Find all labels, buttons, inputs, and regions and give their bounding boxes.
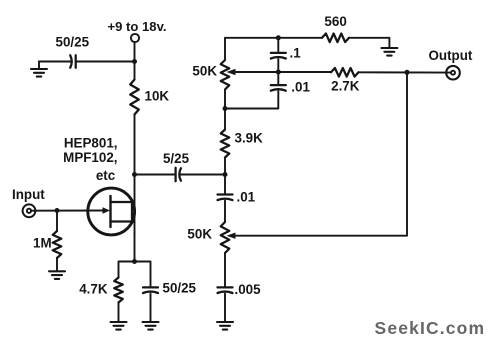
wire 1M top — [56, 211, 58, 232]
capacitor .1 — [271, 52, 286, 54]
node wiper junction — [276, 70, 281, 75]
svg-text:.005: .005 — [235, 282, 262, 297]
node source junction — [132, 259, 137, 264]
capacitor .01 mid — [218, 193, 233, 195]
resistor 560 — [322, 34, 349, 43]
wire 2.7K to output — [359, 71, 452, 73]
svg-text:MPF102,: MPF102, — [63, 150, 117, 165]
capacitor .005 — [218, 286, 233, 288]
wire cap01 to pot2 — [224, 201, 226, 222]
svg-text:1M: 1M — [33, 235, 52, 250]
resistor 3.9K — [221, 130, 230, 158]
potentiometer 50K lower — [221, 222, 230, 253]
capacitor 50/25 source bypass — [143, 286, 158, 288]
svg-text:4.7K: 4.7K — [79, 282, 108, 297]
wire drain vertical — [134, 115, 136, 235]
wire bypass right segment — [76, 61, 135, 63]
svg-text:.1: .1 — [290, 46, 302, 61]
svg-text:+9 to 18v.: +9 to 18v. — [107, 19, 166, 34]
wire input to gate — [31, 210, 104, 212]
ground G2 — [49, 270, 65, 272]
ground G3 — [111, 321, 127, 323]
wire bypass left segment — [39, 61, 71, 63]
wire source vertical — [134, 233, 136, 262]
wire cap column upper — [277, 38, 279, 52]
node top cap junction — [276, 35, 281, 40]
power terminal +9 to 18v — [131, 34, 139, 42]
wire pot2 bottom — [224, 253, 226, 286]
capacitor 5/25 coupling — [174, 168, 176, 182]
capacitor 50/25 input-supply — [70, 55, 72, 67]
wire 3.9K bottom — [224, 158, 226, 194]
svg-text:50/25: 50/25 — [163, 281, 197, 296]
node input-1M junction — [55, 208, 60, 213]
svg-text:3.9K: 3.9K — [235, 131, 264, 146]
wire cap .1 to wiper node — [277, 59, 279, 84]
wire cap005 bottom — [224, 294, 226, 323]
transistor Q1 HEP801/MPF102 JFET — [88, 188, 135, 235]
svg-text:.01: .01 — [291, 79, 310, 94]
node pot1 bottom junction — [223, 106, 228, 111]
resistor 1M — [53, 231, 62, 258]
wire bypass cap bottom — [150, 294, 152, 323]
wire top feedback row — [225, 37, 322, 39]
resistor 10K — [130, 80, 139, 115]
node coupling junction — [223, 172, 228, 177]
svg-text:5/25: 5/25 — [163, 151, 190, 166]
svg-text:SeekIC.com: SeekIC.com — [375, 318, 486, 338]
svg-text:2.7K: 2.7K — [331, 79, 360, 94]
wire feedback vertical right — [236, 72, 407, 235]
wire 1M bottom — [56, 258, 58, 271]
wire pot1 bottom — [224, 90, 226, 130]
input jack — [23, 204, 36, 217]
wire wiper row — [235, 71, 332, 73]
wire 5/25 right — [180, 174, 225, 176]
svg-text:50/25: 50/25 — [56, 35, 90, 50]
wire 5/25 left — [135, 174, 176, 176]
node supply-bypass junction — [132, 59, 137, 64]
ground G4 — [143, 321, 159, 323]
resistor 4.7K — [114, 278, 123, 303]
svg-text:560: 560 — [324, 14, 346, 29]
svg-text:Input: Input — [12, 187, 45, 202]
svg-text:Output: Output — [429, 48, 473, 63]
wire 560 right — [349, 38, 389, 48]
resistor 2.7K — [331, 68, 359, 77]
ground G1 — [38, 62, 40, 70]
potentiometer 50K upper — [221, 60, 230, 90]
capacitor .01 top — [271, 84, 286, 86]
node output junction — [405, 70, 410, 75]
node drain tap junction — [132, 172, 137, 177]
wire cap .01 bottom corner — [225, 91, 278, 108]
svg-text:50K: 50K — [187, 227, 212, 242]
ground G5 — [217, 321, 233, 323]
wire source horizontal — [119, 262, 151, 287]
wire supply vertical upper — [134, 42, 136, 80]
ground G6 — [381, 47, 397, 49]
wire 4.7K bottom — [118, 303, 120, 323]
svg-text:etc: etc — [96, 168, 116, 183]
svg-text:10K: 10K — [145, 89, 170, 104]
svg-text:.01: .01 — [237, 189, 256, 204]
svg-text:HEP801,: HEP801, — [64, 135, 118, 150]
svg-text:50K: 50K — [192, 63, 217, 78]
output jack — [446, 66, 460, 80]
wire mid column top — [224, 38, 226, 60]
